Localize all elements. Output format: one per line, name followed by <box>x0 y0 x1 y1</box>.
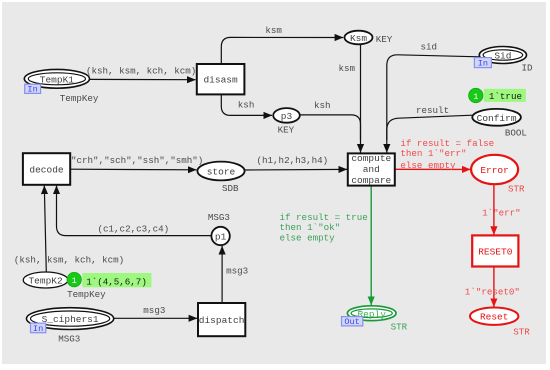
wire dispatch to p1 <box>222 246 248 303</box>
transition decode <box>23 153 70 185</box>
svg-text:BOOL: BOOL <box>505 127 527 138</box>
svg-text:TempK2: TempK2 <box>28 276 63 287</box>
place store <box>197 162 244 181</box>
wire compute to Reply (green) <box>370 186 372 305</box>
svg-text:Out: Out <box>344 317 359 327</box>
wire RESET0 to Reset (red) <box>465 267 520 307</box>
svg-text:dispatch: dispatch <box>199 315 245 326</box>
place p1 <box>211 227 229 245</box>
svg-text:then 1`"err": then 1`"err" <box>400 148 466 159</box>
place TempK1 <box>24 69 89 88</box>
type label SDB <box>222 183 239 194</box>
svg-text:compare: compare <box>351 175 391 186</box>
svg-text:TempKey: TempKey <box>67 289 106 300</box>
transition RESET0 <box>472 235 518 266</box>
place TempK2 <box>23 272 68 288</box>
wire disasm to p3 <box>221 95 272 116</box>
svg-text:1: 1 <box>473 92 478 102</box>
In tag of TempK1 <box>25 84 41 94</box>
type label STR (Error) <box>508 184 525 195</box>
place Error <box>471 155 518 184</box>
svg-text:ksm: ksm <box>339 63 356 74</box>
wire TempK2 to decode <box>14 186 124 272</box>
In tag of Sid <box>474 58 491 69</box>
type label KEY (p3) <box>278 125 295 136</box>
svg-text:then 1`"ok": then 1`"ok" <box>280 222 341 233</box>
In tag of S_ciphers1 <box>31 323 46 334</box>
wire Confirm to compute <box>387 105 473 140</box>
wire p3 to compute <box>300 100 361 140</box>
svg-text:disasm: disasm <box>203 75 238 86</box>
svg-text:1: 1 <box>72 276 77 286</box>
svg-text:(c1,c2,c3,c4): (c1,c2,c3,c4) <box>98 224 170 235</box>
svg-text:In: In <box>33 324 43 334</box>
guard text green: if result = true <box>280 212 368 244</box>
svg-text:compute: compute <box>351 153 391 164</box>
svg-text:msg3: msg3 <box>226 266 248 277</box>
wire store to compute <box>245 155 347 170</box>
svg-text:p1: p1 <box>215 232 227 243</box>
svg-text:KEY: KEY <box>278 125 295 136</box>
type label STR (Reset) <box>513 326 530 337</box>
transition compute and compare <box>348 153 395 186</box>
place Ksm <box>345 31 373 45</box>
svg-text:1`(4,5,6,7): 1`(4,5,6,7) <box>86 276 147 287</box>
svg-text:MSG3: MSG3 <box>208 212 230 223</box>
svg-text:(h1,h2,h3,h4): (h1,h2,h3,h4) <box>257 155 329 166</box>
wire Sid to compute <box>387 42 479 153</box>
svg-text:ksm: ksm <box>265 25 282 36</box>
svg-text:STR: STR <box>508 184 525 195</box>
wire p1 to decode <box>57 186 212 236</box>
place Reply <box>347 306 396 321</box>
svg-text:TempK1: TempK1 <box>40 74 75 85</box>
svg-text:ID: ID <box>522 62 534 73</box>
place S_ciphers1 <box>27 308 114 330</box>
svg-text:result: result <box>416 105 449 116</box>
svg-text:In: In <box>27 85 37 95</box>
svg-text:store: store <box>207 166 236 177</box>
svg-text:Confirm: Confirm <box>477 113 517 124</box>
svg-text:SDB: SDB <box>222 183 239 194</box>
svg-text:S_ciphers1: S_ciphers1 <box>42 314 99 325</box>
svg-text:decode: decode <box>29 164 64 175</box>
svg-text:STR: STR <box>513 326 530 337</box>
type label BOOL <box>505 127 527 138</box>
svg-text:STR: STR <box>391 322 408 333</box>
transition dispatch <box>198 303 245 336</box>
svg-text:RESET0: RESET0 <box>478 247 513 258</box>
svg-text:"crh","sch","ssh","smh"): "crh","sch","ssh","smh") <box>71 155 203 166</box>
type label ID <box>522 62 534 73</box>
svg-text:Ksm: Ksm <box>350 33 367 44</box>
place Confirm <box>472 109 521 126</box>
svg-text:In: In <box>478 59 488 69</box>
token count of Confirm <box>469 88 483 102</box>
svg-text:Sid: Sid <box>494 51 511 62</box>
svg-text:else empty: else empty <box>280 233 336 244</box>
svg-text:(ksh, ksm, kch, kcm): (ksh, ksm, kch, kcm) <box>14 254 124 265</box>
type label MSG3 (S_ciphers1) <box>58 334 80 345</box>
svg-text:KEY: KEY <box>376 34 393 45</box>
wire TempK1 to disasm <box>86 66 196 80</box>
svg-text:1`"err": 1`"err" <box>482 208 521 219</box>
type label TempKey <box>60 93 99 104</box>
svg-text:TempKey: TempKey <box>60 93 99 104</box>
svg-text:1`true: 1`true <box>489 91 522 102</box>
wire S_ciphers1 to dispatch <box>114 305 197 318</box>
type label TempKey (TempK2) <box>67 289 106 300</box>
token value box 1`true <box>484 89 526 102</box>
svg-text:Error: Error <box>480 165 509 176</box>
Out tag of Reply <box>342 317 363 328</box>
svg-text:ksh: ksh <box>314 100 331 111</box>
wire Ksm to compute <box>339 44 361 152</box>
type label MSG3 (p1) <box>208 212 230 223</box>
guard text red: if result = false <box>400 138 494 171</box>
svg-text:msg3: msg3 <box>143 305 165 316</box>
token value box 1`(4,5,6,7) <box>82 273 151 287</box>
type label KEY (Ksm) <box>376 34 393 45</box>
place p3 <box>273 108 300 123</box>
svg-text:MSG3: MSG3 <box>58 334 80 345</box>
svg-text:sid: sid <box>421 42 438 53</box>
svg-text:1`"reset0": 1`"reset0" <box>465 287 520 298</box>
svg-text:Reset: Reset <box>480 312 509 323</box>
svg-text:(ksh, ksm, kch, kcm): (ksh, ksm, kch, kcm) <box>86 66 196 77</box>
svg-text:p3: p3 <box>281 111 293 122</box>
svg-text:ksh: ksh <box>238 100 255 111</box>
wire compute to Error (red) <box>395 168 471 170</box>
place Sid <box>479 47 526 64</box>
token count of TempK2 <box>67 272 81 286</box>
type label STR (Reply) <box>391 322 408 333</box>
svg-text:else empty: else empty <box>400 160 456 171</box>
wire decode to store <box>70 155 203 170</box>
place Reset <box>470 308 518 325</box>
wire Error to RESET0 (red) <box>482 184 521 234</box>
transition disasm <box>197 64 245 94</box>
svg-text:and: and <box>363 164 380 175</box>
wire disasm to Ksm <box>221 25 343 64</box>
